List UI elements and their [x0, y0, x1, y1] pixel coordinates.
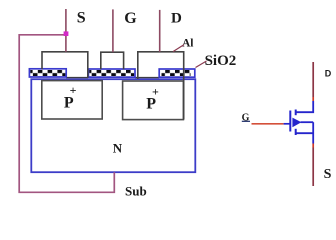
svg-text:P: P	[146, 96, 156, 113]
gate wire red segment	[252, 123, 284, 125]
Al contact opening line (source)	[66, 77, 88, 79]
P+ well (drain side)	[123, 81, 184, 120]
junction dot	[64, 31, 69, 36]
leader line SiO2	[196, 61, 207, 68]
gate bar	[289, 111, 291, 132]
svg-text:D: D	[325, 68, 332, 78]
underline of G label	[242, 120, 250, 122]
Al contact opening line (drain)	[135, 77, 159, 79]
body connection	[301, 121, 314, 123]
wire substrate-to-source (Sub)	[19, 35, 114, 193]
Al contact S	[42, 52, 88, 78]
svg-text:P: P	[64, 95, 74, 112]
svg-text:SiO2: SiO2	[205, 53, 237, 69]
svg-text:N: N	[113, 140, 123, 155]
gate wire blue segment	[284, 123, 290, 125]
drain connection	[295, 101, 313, 112]
terminal S lead	[65, 9, 67, 52]
channel dash bottom	[295, 129, 297, 135]
Al contact G	[101, 52, 124, 69]
svg-text:G: G	[124, 10, 137, 27]
source connection	[295, 132, 313, 134]
N substrate region	[31, 79, 195, 172]
drain wire	[312, 62, 314, 97]
P+ well (source side)	[42, 81, 102, 119]
svg-text:Al: Al	[182, 37, 194, 49]
SiO2 layer segment gate	[88, 69, 135, 77]
svg-text:D: D	[171, 11, 182, 27]
Al contact D	[138, 52, 184, 120]
channel dash top	[295, 110, 297, 116]
source-body junction wire	[312, 122, 314, 143]
SiO2 layer segment left	[29, 69, 66, 77]
leader line Al	[173, 45, 184, 52]
body arrow	[292, 118, 301, 128]
svg-text:Sub: Sub	[125, 183, 147, 198]
SiO2 layer segment right	[159, 69, 195, 77]
terminal G lead	[112, 9, 114, 52]
svg-text:S: S	[77, 10, 86, 27]
source wire	[312, 144, 314, 148]
svg-text:S: S	[324, 167, 332, 182]
terminal D lead	[159, 10, 161, 52]
